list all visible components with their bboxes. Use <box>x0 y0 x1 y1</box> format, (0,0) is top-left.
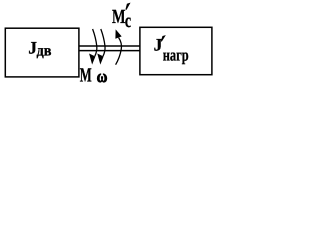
svg-text:нагр: нагр <box>163 46 189 65</box>
label J'нагр <box>154 35 189 65</box>
load torque arrow (M'c) <box>116 30 122 64</box>
svg-text:c: c <box>125 10 131 32</box>
torque arrow 1 (M) <box>90 29 97 63</box>
label M'c <box>112 4 131 32</box>
motor box Jдв <box>5 28 79 77</box>
shaft lower line <box>79 50 140 52</box>
svg-text:ω: ω <box>97 66 108 86</box>
torque arrow 2 (M) <box>98 29 105 63</box>
load box Jнагр <box>140 27 212 74</box>
svg-text:M: M <box>112 6 126 28</box>
svg-text:дв: дв <box>37 42 52 59</box>
label M omega <box>80 65 108 87</box>
svg-text:J: J <box>154 35 163 55</box>
label Jдв <box>28 37 52 59</box>
shaft upper line <box>79 45 140 47</box>
svg-text:M: M <box>80 65 92 87</box>
